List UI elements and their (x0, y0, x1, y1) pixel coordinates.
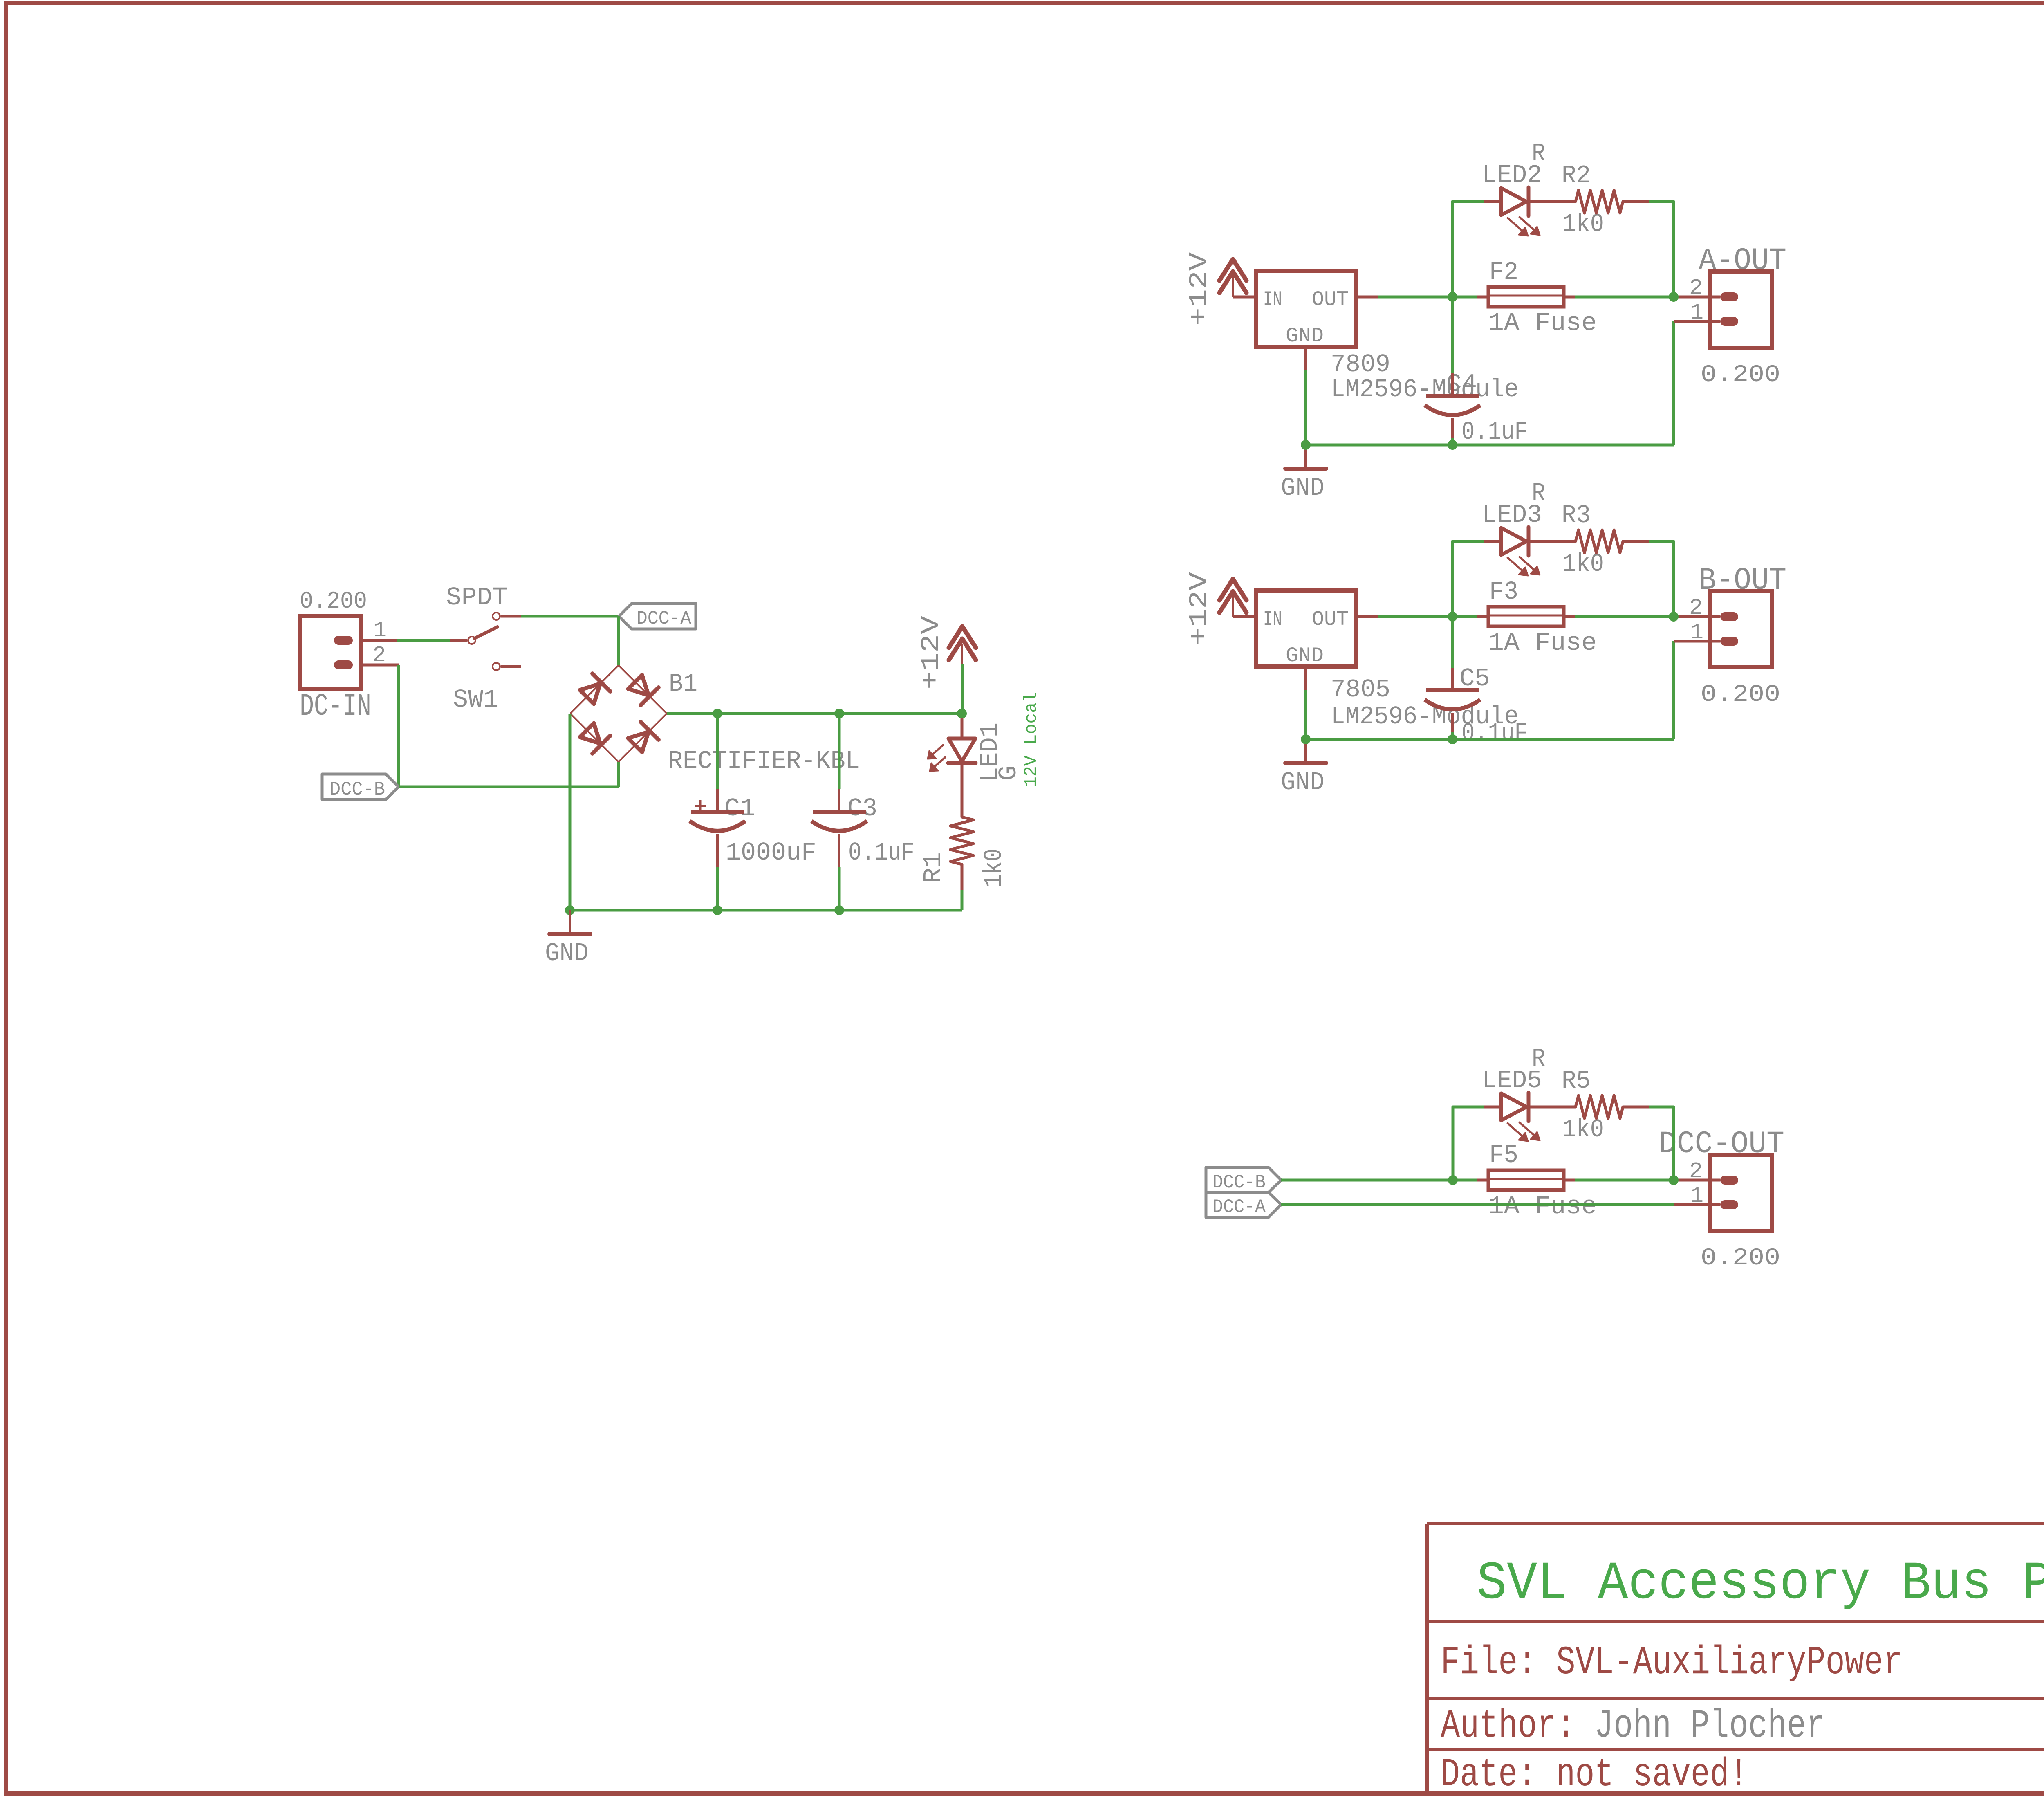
svg-text:GND: GND (1281, 474, 1325, 503)
svg-text:1k0: 1k0 (1562, 1115, 1604, 1144)
svg-text:0.1uF: 0.1uF (1461, 719, 1528, 748)
svg-text:LM2596-Module: LM2596-Module (1331, 375, 1519, 404)
svg-text:John Plocher: John Plocher (1594, 1704, 1825, 1749)
svg-text:F2: F2 (1489, 258, 1518, 287)
svg-text:LED5: LED5 (1482, 1066, 1542, 1095)
svg-text:R3: R3 (1562, 501, 1591, 530)
svg-text:12V Local: 12V Local (1021, 692, 1042, 787)
svg-text:0.200: 0.200 (1701, 1245, 1780, 1272)
svg-text:SVL Accessory Bus Power Distri: SVL Accessory Bus Power Distribution (1477, 1554, 2044, 1614)
svg-text:G: G (994, 765, 1023, 781)
svg-text:C3: C3 (847, 794, 877, 823)
svg-text:DC-IN: DC-IN (300, 689, 371, 724)
svg-text:OUT: OUT (1312, 288, 1349, 312)
svg-text:LED2: LED2 (1482, 161, 1542, 190)
svg-text:1000uF: 1000uF (726, 838, 816, 867)
svg-text:0.1uF: 0.1uF (848, 838, 914, 867)
svg-text:0.200: 0.200 (300, 588, 367, 615)
svg-text:GND: GND (1286, 644, 1324, 668)
svg-text:1k0: 1k0 (1562, 550, 1604, 579)
svg-text:B1: B1 (669, 669, 697, 698)
svg-text:R5: R5 (1562, 1066, 1591, 1095)
svg-text:SW1: SW1 (453, 685, 498, 714)
svg-text:0.1uF: 0.1uF (1461, 417, 1528, 447)
svg-text:DCC-B: DCC-B (1213, 1172, 1266, 1193)
svg-text:1k0: 1k0 (979, 848, 1009, 887)
svg-text:+12V: +12V (1185, 252, 1214, 326)
svg-text:1k0: 1k0 (1562, 210, 1604, 239)
svg-text:IN: IN (1263, 288, 1282, 312)
svg-text:Date: not saved!: Date: not saved! (1441, 1753, 1748, 1798)
svg-text:F3: F3 (1489, 577, 1518, 606)
svg-text:DCC-A: DCC-A (1213, 1196, 1266, 1218)
svg-text:1A Fuse: 1A Fuse (1488, 1192, 1597, 1221)
svg-text:LED3: LED3 (1482, 500, 1542, 530)
svg-text:DCC-A: DCC-A (637, 608, 691, 629)
svg-text:IN: IN (1263, 608, 1282, 631)
svg-text:1A Fuse: 1A Fuse (1488, 628, 1597, 658)
svg-text:DCC-B: DCC-B (329, 779, 385, 800)
svg-text:1A Fuse: 1A Fuse (1488, 309, 1597, 338)
svg-text:GND: GND (1286, 325, 1324, 348)
svg-text:File: SVL-AuxiliaryPower: File: SVL-AuxiliaryPower (1441, 1641, 1903, 1686)
svg-text:R2: R2 (1562, 161, 1591, 190)
svg-text:F5: F5 (1489, 1141, 1518, 1170)
svg-text:GND: GND (1281, 768, 1325, 797)
svg-text:RECTIFIER-KBL: RECTIFIER-KBL (668, 747, 860, 776)
svg-text:SPDT: SPDT (446, 583, 508, 612)
svg-text:0.200: 0.200 (1701, 362, 1780, 388)
svg-text:Author:: Author: (1441, 1704, 1576, 1749)
svg-text:0.200: 0.200 (1701, 682, 1780, 708)
svg-text:R1: R1 (919, 852, 948, 883)
svg-text:OUT: OUT (1312, 608, 1349, 631)
svg-text:+12V: +12V (1185, 572, 1214, 646)
svg-text:GND: GND (545, 939, 589, 968)
svg-text:7805: 7805 (1331, 675, 1390, 704)
svg-text:C1: C1 (724, 794, 755, 823)
svg-text:+12V: +12V (917, 616, 946, 689)
